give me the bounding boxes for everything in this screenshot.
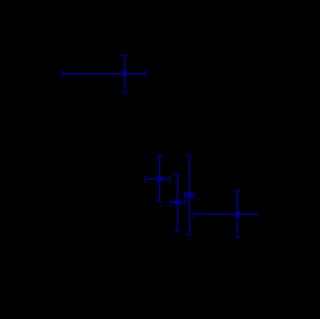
data point A: marker [121, 70, 128, 77]
data point B: x error bar [146, 175, 170, 182]
data point D: marker [186, 192, 193, 199]
data point C: marker [174, 199, 181, 206]
data point B: y error bar [156, 156, 163, 202]
data point D: x error bar [184, 192, 193, 199]
data point E: x error bar [194, 211, 256, 218]
data point C: y error bar [174, 175, 181, 231]
data point B: marker [156, 176, 163, 183]
data point C: x error bar [170, 199, 185, 206]
data point E: marker [234, 211, 241, 218]
data point A: y error bar [121, 55, 128, 92]
data point E: y error bar [234, 191, 241, 238]
data point A: x error bar [63, 70, 146, 77]
data point D: y error bar [186, 155, 193, 234]
